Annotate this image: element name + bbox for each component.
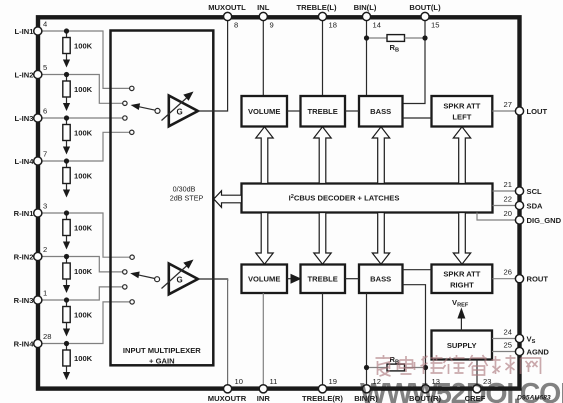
wire I2C to DIG_GND pin 20 <box>477 213 517 221</box>
mux contact 2 <box>123 101 127 105</box>
svg-text:TREBLE(L): TREBLE(L) <box>296 3 337 12</box>
bus arrow I2C to TREBLE R <box>314 213 331 265</box>
svg-text:11: 11 <box>270 377 278 386</box>
mux contact 6 <box>123 270 127 274</box>
wire R-IN2 to mux contact 6 <box>41 257 123 272</box>
svg-text:6: 6 <box>43 107 47 116</box>
bus arrow I2C to VOLUME L <box>256 127 273 184</box>
svg-text:D95AU683: D95AU683 <box>517 395 551 402</box>
bus arrow I2C to input multiplexer <box>214 191 242 208</box>
svg-text:SPKR ATT: SPKR ATT <box>443 270 480 279</box>
svg-text:L-IN1: L-IN1 <box>15 27 35 36</box>
value 100K (R-IN3) <box>74 311 93 320</box>
resistor 100K on R-IN1 <box>63 213 70 250</box>
pin 14 BIN(L) <box>354 3 381 30</box>
value 100K (R-IN1) <box>74 224 93 233</box>
svg-text:2dB STEP: 2dB STEP <box>170 194 204 203</box>
wire L-IN4 to mux contact 4 <box>41 132 130 161</box>
svg-text:24: 24 <box>504 328 512 337</box>
svg-text:MUXOUTL: MUXOUTL <box>208 3 246 12</box>
wire TREBLE(L) pin 18 to TREBLE L <box>322 20 324 97</box>
svg-text:20: 20 <box>504 209 512 218</box>
op-amp G1 left gain stage <box>162 92 198 127</box>
wire L-IN2 to mux contact 2 <box>41 75 123 104</box>
wire INL pin 9 to VOLUME L <box>262 20 264 97</box>
pin 3 R-IN1 <box>14 202 48 219</box>
svg-text:19: 19 <box>329 377 337 386</box>
svg-text:3: 3 <box>43 202 47 211</box>
mux contact 3 <box>123 116 127 120</box>
pin 23 CREF <box>465 377 492 403</box>
wire G2 output to MUXOUTR pin 10 <box>198 279 228 387</box>
svg-text:BIN(L): BIN(L) <box>354 3 377 12</box>
svg-text:9: 9 <box>270 21 274 30</box>
svg-text:R-IN1: R-IN1 <box>14 209 35 218</box>
wire TREBLE R to TREBLE(R) pin 19 <box>322 293 324 387</box>
svg-text:14: 14 <box>373 21 381 30</box>
svg-text:R-IN2: R-IN2 <box>14 253 34 262</box>
junction L-IN4 <box>64 158 69 163</box>
mux wiper L <box>131 103 160 113</box>
wire SPKR ATT RIGHT to ROUT pin 26 <box>492 278 517 280</box>
svg-text:26: 26 <box>504 268 512 277</box>
block VOLUME right <box>242 265 288 294</box>
op-amp G2 right gain stage <box>162 260 198 295</box>
svg-text:100K: 100K <box>74 311 93 320</box>
pin 28 R-IN4 <box>14 332 52 349</box>
label 0/30dB 2dB STEP <box>170 185 204 203</box>
value 100K (L-IN4) <box>74 172 93 181</box>
block VOLUME left <box>242 96 288 127</box>
pin 8 MUXOUTL <box>208 3 246 30</box>
pin 21 SCL <box>504 180 543 196</box>
pin 1 R-IN3 <box>14 289 48 306</box>
mux contact 1 <box>130 86 134 90</box>
svg-text:BOUT(L): BOUT(L) <box>409 3 441 12</box>
resistor RB (right) <box>367 364 426 371</box>
wire SUPPLY to CREF pin 23 <box>476 360 478 387</box>
svg-text:RIGHT: RIGHT <box>450 281 474 290</box>
pin 22 SDA <box>504 195 544 211</box>
svg-text:WWW.: WWW. <box>360 378 442 403</box>
pin 11 INR <box>257 377 278 403</box>
junction R-IN1 <box>64 210 69 215</box>
wire SUPPLY to AGND pin 25 <box>492 351 517 353</box>
mux contact 7 <box>123 285 127 289</box>
svg-text:INR: INR <box>257 394 271 403</box>
pin 20 DIG_GND <box>504 209 562 225</box>
svg-text:22: 22 <box>504 195 512 204</box>
resistor 100K on L-IN3 <box>63 118 70 155</box>
svg-text:0/30dB: 0/30dB <box>173 185 196 194</box>
value 100K (L-IN1) <box>74 42 93 51</box>
svg-text:100K: 100K <box>74 224 93 233</box>
pin 18 TREBLE(L) <box>296 3 337 30</box>
block TREBLE right <box>301 265 346 294</box>
bus arrow I2C to TREBLE L <box>314 127 331 184</box>
pin 2 R-IN2 <box>14 245 48 262</box>
pin 19 TREBLE(R) <box>302 377 343 403</box>
junction R-IN2 <box>64 254 69 259</box>
svg-text:100K: 100K <box>74 267 93 276</box>
svg-text:100K: 100K <box>74 172 93 181</box>
pin 12 BIN(R) <box>354 377 381 403</box>
svg-text:SDA: SDA <box>527 202 544 211</box>
resistor RB (left) <box>367 35 426 42</box>
watermark (decorative) <box>376 355 541 376</box>
wire TREBLE to BASS (left) <box>345 110 359 112</box>
svg-text:25: 25 <box>504 341 512 350</box>
pin 10 MUXOUTR <box>208 377 247 403</box>
svg-text:MUXOUTR: MUXOUTR <box>208 394 247 403</box>
wire I2C to SCL pin 21 <box>493 190 518 192</box>
label VREF <box>452 298 469 309</box>
svg-text:4: 4 <box>43 20 47 29</box>
svg-text:I2CBUS DECODER + LATCHES: I2CBUS DECODER + LATCHES <box>289 194 400 203</box>
bus arrow I2C to SPKR ATT LEFT <box>453 127 470 184</box>
wire R-IN1 to mux contact 5 <box>41 213 130 257</box>
svg-text:BASS: BASS <box>370 275 391 284</box>
pin 7 L-IN4 <box>15 150 48 167</box>
resistor 100K on R-IN2 <box>63 257 70 294</box>
wire SPKR ATT LEFT to LOUT pin 27 <box>492 110 517 112</box>
wire TREBLE to BASS (right) <box>345 278 359 280</box>
pin 15 BOUT(L) <box>409 3 441 30</box>
svg-text:100K: 100K <box>74 354 93 363</box>
block SUPPLY <box>432 331 493 360</box>
resistor 100K on R-IN3 <box>63 300 70 337</box>
wire BASS to SPKR ATT LEFT <box>403 117 432 119</box>
svg-text:18: 18 <box>329 21 337 30</box>
wire VOLUME to TREBLE (left) <box>287 110 301 112</box>
value 100K (L-IN2) <box>74 85 93 94</box>
svg-text:10: 10 <box>235 377 243 386</box>
pin 13 BOUT(R) <box>409 377 442 403</box>
svg-text:1: 1 <box>43 289 47 298</box>
pin 26 ROUT <box>504 268 549 284</box>
svg-text:SCL: SCL <box>527 187 543 196</box>
wire G1 output to MUXOUTL pin 8 <box>198 20 228 112</box>
svg-text:LEFT: LEFT <box>452 113 471 122</box>
wire SUPPLY to VS pin 24 <box>492 338 517 340</box>
svg-text:L-IN4: L-IN4 <box>15 157 35 166</box>
svg-text:INPUT MULTIPLEXER: INPUT MULTIPLEXER <box>123 346 201 355</box>
svg-text:7: 7 <box>43 150 47 159</box>
svg-text:ROUT: ROUT <box>527 275 549 284</box>
svg-text:INL: INL <box>257 3 270 12</box>
junction R-IN3 <box>64 297 69 302</box>
value 100K (R-IN4) <box>74 354 93 363</box>
block BASS right <box>359 265 403 294</box>
svg-text:SUPPLY: SUPPLY <box>447 341 477 350</box>
junction L-IN1 <box>64 28 69 33</box>
wire I2C to SDA pin 22 <box>493 205 518 207</box>
svg-text:R-IN4: R-IN4 <box>14 340 35 349</box>
wire BASS to SPKR ATT RIGHT <box>403 269 432 271</box>
bus arrow I2C to BASS R <box>372 213 389 265</box>
svg-text:21: 21 <box>504 180 512 189</box>
value 100K (L-IN3) <box>74 129 93 138</box>
pin 24 VS <box>504 328 536 346</box>
junction BIN(L) <box>364 35 369 40</box>
wire L-IN3 to mux contact 3 <box>41 117 123 119</box>
label RB (left) <box>390 43 400 54</box>
svg-text:G: G <box>177 108 183 117</box>
svg-text:TREBLE(R): TREBLE(R) <box>302 394 343 403</box>
bus arrow I2C to BASS L <box>372 127 389 184</box>
wire BOUT(L) pin 15 to BASS L right side <box>403 20 426 104</box>
junction L-IN3 <box>64 115 69 120</box>
mux contact 4 <box>130 130 134 134</box>
svg-text:LOUT: LOUT <box>527 107 548 116</box>
junction BOUT(R) <box>423 365 428 370</box>
svg-text:100K: 100K <box>74 85 93 94</box>
resistor 100K on L-IN1 <box>63 31 70 68</box>
svg-text:R-IN3: R-IN3 <box>14 296 34 305</box>
svg-text:SPKR ATT: SPKR ATT <box>443 102 480 111</box>
svg-text:28: 28 <box>43 332 51 341</box>
svg-text:+ GAIN: + GAIN <box>149 357 175 366</box>
block I2CBUS DECODER + LATCHES <box>242 184 493 213</box>
svg-text:L-IN3: L-IN3 <box>15 114 34 123</box>
wire R-IN3 to mux contact 7 <box>41 287 123 300</box>
wire BASS R to BOUT(R) pin 13 <box>403 285 426 387</box>
resistor 100K on R-IN4 <box>63 344 70 381</box>
block SPKR ATT RIGHT <box>432 265 493 294</box>
svg-text:VOLUME: VOLUME <box>248 107 281 116</box>
svg-text:52: 52 <box>436 378 466 403</box>
drawing number D95AU683 <box>517 395 551 402</box>
pin 4 L-IN1 <box>15 20 48 37</box>
wire VOLUME to TREBLE (right) with arrow <box>287 274 302 284</box>
svg-text:BASS: BASS <box>370 107 391 116</box>
pin 5 L-IN2 <box>15 63 48 80</box>
junction BIN(R) <box>364 365 369 370</box>
svg-text:27: 27 <box>504 100 512 109</box>
bus arrow I2C to VOLUME R <box>256 213 273 265</box>
pin 6 L-IN3 <box>15 107 48 124</box>
svg-text:VOLUME: VOLUME <box>248 275 281 284</box>
svg-text:AGND: AGND <box>527 348 550 357</box>
IC outline U1 TDA8425 <box>38 17 520 388</box>
junction L-IN2 <box>64 72 69 77</box>
svg-text:TREBLE: TREBLE <box>308 275 338 284</box>
VREF arrow from SUPPLY <box>457 308 465 331</box>
wire BASS R to BIN(R) pin 12 <box>366 293 368 387</box>
svg-text:8: 8 <box>234 21 238 30</box>
mux contact 5 <box>130 255 134 259</box>
wire VOLUME R to INR pin 11 <box>262 293 264 387</box>
junction R-IN4 <box>64 341 69 346</box>
svg-text:G: G <box>177 276 183 285</box>
resistor 100K on L-IN4 <box>63 161 70 198</box>
svg-text:2: 2 <box>43 245 47 254</box>
mux wiper R <box>130 272 159 282</box>
label RB (right) <box>390 355 400 366</box>
svg-text:15: 15 <box>431 21 439 30</box>
pin 9 INL <box>257 3 274 30</box>
wire BIN(L) pin 14 to BASS L <box>366 20 368 97</box>
pin 25 AGND <box>504 341 550 357</box>
svg-text:100K: 100K <box>74 42 93 51</box>
svg-text:100K: 100K <box>74 129 93 138</box>
wire R-IN4 to mux contact 8 <box>41 302 130 344</box>
bus arrow I2C to SPKR ATT RIGHT <box>453 213 470 265</box>
wire L-IN1 to mux contact 1 <box>41 31 130 88</box>
svg-text:DIG_GND: DIG_GND <box>527 216 562 225</box>
block TREBLE left <box>301 96 346 127</box>
resistor 100K on L-IN2 <box>63 75 70 112</box>
svg-text:L-IN2: L-IN2 <box>15 71 34 80</box>
svg-text:TREBLE: TREBLE <box>308 107 338 116</box>
value 100K (R-IN2) <box>74 267 93 276</box>
block BASS left <box>359 96 403 127</box>
input multiplexer box <box>111 31 214 366</box>
svg-text:5: 5 <box>43 63 47 72</box>
junction BOUT(L) <box>422 35 427 40</box>
block SPKR ATT LEFT <box>432 96 493 127</box>
pin 27 LOUT <box>504 100 548 116</box>
mux contact 8 <box>130 300 134 304</box>
